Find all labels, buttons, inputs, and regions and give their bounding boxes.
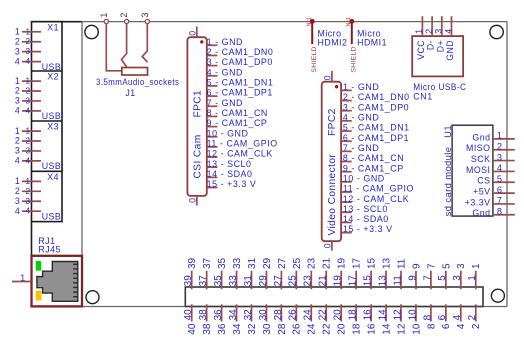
- svg-text:1 - GND: 1 - GND: [207, 37, 243, 47]
- svg-text:CN1: CN1: [413, 92, 432, 102]
- svg-text:4: 4: [497, 163, 503, 173]
- svg-text:1: 1: [15, 27, 20, 37]
- svg-text:7: 7: [497, 196, 503, 206]
- svg-text:SHIELD: SHIELD: [311, 46, 318, 72]
- svg-text:38: 38: [198, 309, 209, 321]
- svg-text:26: 26: [288, 309, 299, 321]
- svg-text:2: 2: [497, 141, 503, 151]
- svg-text:SCK: SCK: [471, 154, 491, 164]
- svg-text:4: 4: [452, 314, 463, 320]
- svg-text:29: 29: [258, 275, 269, 287]
- svg-text:35: 35: [213, 275, 224, 287]
- svg-text:6 - CAM1_DP1: 6 - CAM1_DP1: [343, 133, 409, 143]
- svg-text:12: 12: [396, 323, 407, 335]
- svg-text:1: 1: [26, 177, 31, 186]
- svg-text:3: 3: [26, 197, 31, 206]
- svg-text:1 - GND: 1 - GND: [343, 82, 379, 92]
- svg-text:D+: D+: [435, 40, 445, 52]
- svg-text:33: 33: [228, 275, 239, 287]
- svg-text:31: 31: [243, 275, 254, 287]
- svg-text:1: 1: [26, 27, 31, 36]
- svg-text:4: 4: [26, 57, 31, 66]
- svg-text:6: 6: [441, 323, 452, 329]
- svg-text:1: 1: [20, 273, 25, 283]
- svg-text:7: 7: [426, 263, 437, 269]
- svg-text:28: 28: [273, 309, 284, 321]
- svg-text:14: 14: [381, 323, 392, 335]
- svg-text:3: 3: [26, 96, 31, 105]
- svg-text:CS: CS: [477, 176, 490, 186]
- svg-text:USB: USB: [42, 62, 62, 72]
- svg-text:1: 1: [15, 176, 20, 186]
- svg-text:3 - CAM1_DP0: 3 - CAM1_DP0: [343, 102, 409, 112]
- svg-text:21: 21: [322, 257, 333, 269]
- svg-text:9: 9: [411, 263, 422, 269]
- svg-text:23: 23: [307, 257, 318, 269]
- svg-text:22: 22: [322, 323, 333, 335]
- svg-text:2: 2: [467, 314, 478, 320]
- svg-text:2: 2: [26, 187, 31, 196]
- svg-text:2: 2: [15, 86, 20, 96]
- svg-text:N°1: N°1: [307, 17, 313, 27]
- svg-text:11 - CAM_GPIO: 11 - CAM_GPIO: [343, 184, 414, 194]
- svg-text:14 - SDA0: 14 - SDA0: [343, 214, 389, 224]
- svg-text:4 - GND: 4 - GND: [207, 67, 243, 77]
- svg-text:2: 2: [424, 29, 434, 34]
- svg-text:27: 27: [277, 257, 288, 269]
- svg-text:1: 1: [497, 131, 503, 141]
- svg-text:CSI Cam: CSI Cam: [193, 134, 204, 178]
- svg-text:USB: USB: [42, 111, 62, 121]
- svg-text:1: 1: [15, 76, 20, 86]
- svg-text:40: 40: [183, 309, 194, 321]
- svg-text:2: 2: [15, 186, 20, 196]
- svg-text:17: 17: [352, 257, 363, 269]
- svg-text:1: 1: [15, 126, 20, 136]
- svg-text:17: 17: [348, 275, 359, 287]
- svg-text:11: 11: [392, 275, 403, 286]
- svg-text:D-: D-: [426, 40, 436, 50]
- svg-text:27: 27: [273, 275, 284, 287]
- svg-text:37: 37: [202, 257, 213, 269]
- svg-text:6: 6: [497, 185, 503, 195]
- svg-text:0: 0: [323, 243, 333, 248]
- svg-text:16: 16: [367, 323, 378, 335]
- svg-text:USB: USB: [42, 212, 62, 222]
- svg-text:3: 3: [15, 196, 20, 206]
- svg-text:6: 6: [437, 314, 448, 320]
- svg-text:3: 3: [452, 275, 463, 281]
- svg-text:9: 9: [407, 275, 418, 281]
- svg-text:34: 34: [232, 323, 243, 335]
- svg-text:14 - SDA0: 14 - SDA0: [207, 169, 253, 179]
- svg-text:Gnd: Gnd: [472, 132, 490, 142]
- svg-text:FPC2: FPC2: [327, 108, 338, 136]
- svg-text:15: 15: [367, 257, 378, 269]
- svg-text:HDMI2: HDMI2: [318, 38, 348, 48]
- svg-text:36: 36: [217, 323, 228, 335]
- svg-text:J1: J1: [125, 88, 135, 98]
- svg-text:5 - CAM1_DN1: 5 - CAM1_DN1: [207, 78, 274, 88]
- svg-text:N°1: N°1: [346, 17, 352, 27]
- svg-text:19: 19: [333, 275, 344, 287]
- svg-text:13 - SCL0: 13 - SCL0: [343, 204, 388, 214]
- svg-text:2: 2: [471, 323, 482, 329]
- svg-text:11: 11: [396, 258, 407, 269]
- svg-text:8: 8: [497, 206, 503, 216]
- svg-text:X4: X4: [47, 172, 59, 182]
- svg-text:3 - CAM1_DP0: 3 - CAM1_DP0: [207, 57, 273, 67]
- svg-text:10: 10: [411, 323, 422, 335]
- svg-text:0: 0: [323, 75, 333, 80]
- svg-text:4: 4: [15, 156, 20, 166]
- svg-text:13 - SCL0: 13 - SCL0: [207, 159, 252, 169]
- svg-text:1: 1: [471, 263, 482, 269]
- svg-text:19: 19: [337, 257, 348, 269]
- svg-text:25: 25: [288, 275, 299, 287]
- svg-text:0: 0: [188, 31, 198, 36]
- svg-text:4: 4: [443, 29, 453, 34]
- svg-text:4: 4: [26, 156, 31, 165]
- svg-text:U1: U1: [442, 125, 453, 138]
- svg-text:X2: X2: [47, 72, 59, 82]
- svg-text:30: 30: [262, 323, 273, 335]
- svg-text:11 - CAM_GPIO: 11 - CAM_GPIO: [207, 139, 278, 149]
- svg-text:30: 30: [258, 309, 269, 321]
- svg-text:1: 1: [26, 77, 31, 86]
- svg-text:2: 2: [15, 36, 20, 46]
- svg-text:2: 2: [26, 87, 31, 96]
- svg-text:+3.3V: +3.3V: [465, 197, 491, 207]
- svg-text:9 - CAM1_CP: 9 - CAM1_CP: [343, 163, 404, 173]
- svg-text:10 - GND: 10 - GND: [343, 173, 385, 183]
- svg-text:3: 3: [15, 46, 20, 56]
- svg-text:26: 26: [292, 323, 303, 335]
- svg-text:10: 10: [407, 309, 418, 321]
- svg-text:2: 2: [119, 13, 129, 18]
- svg-text:12: 12: [392, 309, 403, 321]
- svg-text:39: 39: [183, 275, 194, 287]
- svg-text:GND: GND: [445, 40, 455, 61]
- svg-text:5 - CAM1_DN1: 5 - CAM1_DN1: [343, 123, 410, 133]
- svg-text:32: 32: [243, 309, 254, 321]
- svg-text:2: 2: [15, 136, 20, 146]
- svg-text:34: 34: [228, 309, 239, 321]
- svg-text:28: 28: [277, 323, 288, 335]
- svg-text:24: 24: [307, 323, 318, 335]
- svg-text:4: 4: [26, 207, 31, 216]
- svg-text:2 - CAM1_DN0: 2 - CAM1_DN0: [207, 47, 274, 57]
- svg-text:8 - CAM1_CN: 8 - CAM1_CN: [207, 108, 268, 118]
- svg-text:8: 8: [422, 314, 433, 320]
- svg-text:3: 3: [26, 146, 31, 155]
- svg-text:13: 13: [377, 275, 388, 287]
- svg-text:25: 25: [292, 257, 303, 269]
- svg-text:Video Connector: Video Connector: [327, 154, 338, 236]
- svg-text:12 - CAM_CLK: 12 - CAM_CLK: [343, 194, 409, 204]
- svg-text:18: 18: [352, 323, 363, 335]
- svg-text:4: 4: [15, 56, 20, 66]
- svg-text:6 - CAM1_DP1: 6 - CAM1_DP1: [207, 88, 273, 98]
- svg-text:35: 35: [217, 257, 228, 269]
- svg-text:38: 38: [202, 323, 213, 335]
- svg-text:0: 0: [188, 198, 198, 203]
- svg-text:5: 5: [437, 275, 448, 281]
- svg-text:31: 31: [247, 257, 258, 269]
- svg-text:SHIELD: SHIELD: [351, 46, 358, 72]
- svg-text:20: 20: [333, 309, 344, 321]
- svg-text:1: 1: [99, 13, 109, 18]
- svg-text:Gnd: Gnd: [472, 208, 490, 218]
- svg-text:8: 8: [426, 323, 437, 329]
- svg-text:USB: USB: [42, 161, 62, 171]
- svg-text:10 - GND: 10 - GND: [207, 128, 249, 138]
- svg-text:15: 15: [363, 275, 374, 287]
- svg-text:3: 3: [15, 96, 20, 106]
- svg-text:24: 24: [303, 309, 314, 321]
- svg-text:4: 4: [15, 106, 20, 116]
- svg-text:15 - +3.3 V: 15 - +3.3 V: [343, 224, 393, 234]
- svg-text:3: 3: [456, 263, 467, 269]
- svg-text:MOSI: MOSI: [466, 165, 490, 175]
- svg-text:HDMI1: HDMI1: [357, 38, 387, 48]
- svg-text:7 - GND: 7 - GND: [343, 143, 379, 153]
- svg-text:2: 2: [26, 137, 31, 146]
- svg-text:18: 18: [348, 309, 359, 321]
- svg-text:23: 23: [303, 275, 314, 287]
- svg-text:15 - +3.3 V: 15 - +3.3 V: [207, 179, 257, 189]
- svg-text:4 - GND: 4 - GND: [343, 112, 379, 122]
- svg-text:FPC1: FPC1: [193, 90, 204, 118]
- svg-text:5: 5: [441, 263, 452, 269]
- svg-text:9 - CAM1_CP: 9 - CAM1_CP: [207, 118, 268, 128]
- svg-text:4: 4: [456, 323, 467, 329]
- svg-text:2: 2: [26, 37, 31, 46]
- svg-text:14: 14: [377, 309, 388, 321]
- svg-text:MISO: MISO: [466, 143, 490, 153]
- svg-text:22: 22: [318, 309, 329, 321]
- svg-text:VCC: VCC: [416, 40, 426, 60]
- svg-text:3: 3: [26, 47, 31, 56]
- svg-text:1: 1: [414, 29, 424, 34]
- svg-text:12 - CAM_CLK: 12 - CAM_CLK: [207, 149, 273, 159]
- svg-text:+5V: +5V: [473, 187, 490, 197]
- svg-text:4: 4: [26, 106, 31, 115]
- svg-text:Micro USB-C: Micro USB-C: [413, 82, 466, 92]
- svg-text:RJ45: RJ45: [38, 244, 61, 254]
- svg-text:sd card module: sd card module: [442, 147, 453, 217]
- svg-text:3.5mmAudio_sockets: 3.5mmAudio_sockets: [96, 77, 179, 87]
- svg-text:7: 7: [422, 275, 433, 281]
- svg-text:3: 3: [497, 152, 503, 162]
- svg-text:5: 5: [497, 174, 503, 184]
- svg-text:3: 3: [15, 146, 20, 156]
- svg-text:8 - CAM1_CN: 8 - CAM1_CN: [343, 153, 404, 163]
- svg-text:36: 36: [213, 309, 224, 321]
- svg-text:1: 1: [26, 127, 31, 136]
- svg-text:X1: X1: [47, 22, 59, 32]
- svg-text:37: 37: [198, 275, 209, 287]
- svg-text:13: 13: [381, 257, 392, 269]
- svg-text:2 - CAM1_DN0: 2 - CAM1_DN0: [343, 92, 410, 102]
- svg-text:7 - GND: 7 - GND: [207, 98, 243, 108]
- svg-text:21: 21: [318, 275, 329, 287]
- svg-text:39: 39: [187, 257, 198, 269]
- svg-text:3: 3: [434, 29, 444, 34]
- svg-text:X3: X3: [47, 122, 59, 132]
- svg-text:29: 29: [262, 257, 273, 269]
- svg-text:33: 33: [232, 257, 243, 269]
- svg-text:40: 40: [187, 323, 198, 335]
- svg-text:3: 3: [140, 13, 150, 18]
- svg-text:32: 32: [247, 323, 258, 335]
- svg-text:4: 4: [15, 206, 20, 216]
- svg-text:1: 1: [467, 275, 478, 281]
- svg-text:16: 16: [363, 309, 374, 321]
- svg-text:20: 20: [337, 323, 348, 335]
